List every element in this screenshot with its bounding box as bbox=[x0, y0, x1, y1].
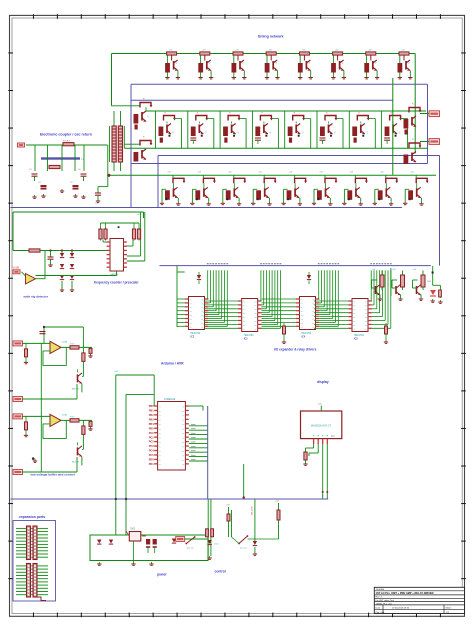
svg-text:PD1: PD1 bbox=[149, 463, 154, 466]
svg-text:wide sig detector: wide sig detector bbox=[23, 295, 49, 299]
svg-text:I/O expander & relay drivers: I/O expander & relay drivers bbox=[274, 348, 317, 352]
svg-text:PC3: PC3 bbox=[149, 445, 154, 448]
svg-text:27.04.2013 18:32: 27.04.2013 18:32 bbox=[392, 608, 410, 610]
svg-text:PC5: PC5 bbox=[149, 454, 154, 457]
svg-text:display: display bbox=[317, 380, 329, 384]
svg-text:MR_LED: MR_LED bbox=[252, 506, 254, 515]
svg-text:+5V: +5V bbox=[228, 172, 232, 174]
svg-text:+5V: +5V bbox=[197, 172, 201, 174]
svg-text:Plot: CAL: Plot: CAL bbox=[376, 611, 386, 614]
svg-text:IC3: IC3 bbox=[244, 338, 248, 341]
svg-text:tact sw: tact sw bbox=[240, 547, 247, 550]
svg-text:+5V: +5V bbox=[258, 172, 262, 174]
svg-text:Date:: Date: bbox=[376, 607, 382, 610]
svg-text:low voltage buffer and control: low voltage buffer and control bbox=[31, 473, 75, 477]
svg-text:+5V: +5V bbox=[167, 172, 171, 174]
svg-text:frequency counter / prescaler: frequency counter / prescaler bbox=[94, 281, 139, 285]
svg-text:LED: LED bbox=[427, 281, 431, 283]
svg-text:+5V: +5V bbox=[413, 269, 417, 271]
svg-text:Electronic coupler / osc retur: Electronic coupler / osc return bbox=[40, 133, 92, 137]
svg-text:ATMEGA8: ATMEGA8 bbox=[164, 398, 176, 401]
svg-text:timing network: timing network bbox=[258, 35, 284, 39]
svg-text:+5V: +5V bbox=[318, 404, 322, 406]
svg-text:PB4: PB4 bbox=[149, 423, 154, 426]
svg-text:PC1: PC1 bbox=[149, 436, 154, 439]
svg-text:+5V: +5V bbox=[349, 172, 353, 174]
svg-text:PC4: PC4 bbox=[149, 450, 154, 453]
svg-text:pwr sw: pwr sw bbox=[187, 547, 194, 550]
svg-text:R1 4k7: R1 4k7 bbox=[63, 141, 71, 143]
svg-text:PB5: PB5 bbox=[149, 427, 154, 430]
svg-text:power: power bbox=[157, 573, 167, 577]
svg-text:Rev: 2: Rev: 2 bbox=[376, 597, 383, 599]
svg-text:reset: reset bbox=[214, 543, 219, 546]
svg-text:IC2: IC2 bbox=[191, 336, 195, 339]
svg-text:TS-930S: TS-930S bbox=[376, 589, 385, 591]
svg-text:+5V: +5V bbox=[319, 172, 323, 174]
svg-text:+5V: +5V bbox=[372, 269, 376, 271]
svg-text:+5V: +5V bbox=[275, 501, 279, 503]
svg-text:PB1: PB1 bbox=[149, 410, 154, 413]
svg-text:IC5A: IC5A bbox=[62, 340, 67, 343]
svg-text:+5V: +5V bbox=[114, 371, 118, 373]
svg-text:IC5: IC5 bbox=[354, 338, 358, 341]
svg-text:control: control bbox=[215, 570, 226, 574]
svg-text:PC0: PC0 bbox=[149, 432, 154, 435]
svg-text:1ST LO PLL UNIT + PRE AMP + RE: 1ST LO PLL UNIT + PRE AMP + RELAY DRIVER bbox=[376, 591, 434, 595]
svg-text:BD139: BD139 bbox=[72, 388, 79, 390]
svg-text:expansion ports: expansion ports bbox=[19, 515, 45, 519]
svg-text:+5V: +5V bbox=[226, 505, 230, 507]
svg-text:7805: 7805 bbox=[130, 529, 136, 531]
svg-text:Arduino / AVR: Arduino / AVR bbox=[161, 362, 184, 366]
svg-text:Sheet:: Sheet: bbox=[446, 607, 452, 610]
svg-text:IC5A: IC5A bbox=[62, 413, 67, 416]
svg-text:4-bit: 4-bit bbox=[331, 435, 335, 438]
svg-text:PB3: PB3 bbox=[149, 418, 154, 421]
svg-text:PB2: PB2 bbox=[149, 414, 154, 417]
svg-text:WH1602A-NYG-CT: WH1602A-NYG-CT bbox=[311, 425, 332, 428]
svg-text:+5V: +5V bbox=[380, 172, 384, 174]
svg-text:MB506: MB506 bbox=[111, 274, 119, 277]
svg-text:Fix CNT relais Test: Fix CNT relais Test bbox=[376, 599, 395, 602]
svg-text:PD0: PD0 bbox=[149, 459, 154, 462]
svg-text:+5V: +5V bbox=[392, 269, 396, 271]
svg-text:+5V: +5V bbox=[289, 172, 293, 174]
svg-text:BD139: BD139 bbox=[72, 461, 79, 463]
svg-text:PC2: PC2 bbox=[149, 441, 154, 444]
svg-text:IC4: IC4 bbox=[302, 336, 306, 339]
svg-text:VUSB: VUSB bbox=[13, 267, 20, 270]
svg-text:+5V: +5V bbox=[410, 172, 414, 174]
svg-text:TS930_PLL_unit: TS930_PLL_unit bbox=[376, 602, 393, 605]
svg-text:PB0: PB0 bbox=[149, 405, 154, 408]
